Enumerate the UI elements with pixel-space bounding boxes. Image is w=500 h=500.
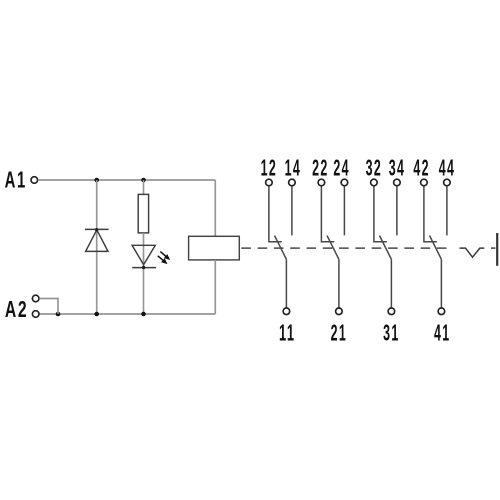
mechanical link dashed line	[239, 247, 447, 249]
contact 1 labels 12 14	[261, 155, 302, 181]
terminal 12	[266, 179, 273, 186]
svg-text:22: 22	[312, 155, 329, 181]
svg-text:A2: A2	[5, 296, 29, 322]
contact 4 common lead	[440, 259, 442, 307]
terminal 44	[444, 179, 451, 186]
svg-text:32: 32	[366, 155, 383, 181]
junction bottom LED branch	[141, 312, 146, 317]
contact 4 labels 42 44	[413, 155, 455, 181]
terminal A1	[31, 177, 38, 184]
mechanical stop bar	[496, 233, 498, 266]
LED arrow 2	[158, 256, 168, 264]
terminal 31	[388, 308, 395, 315]
wire top rail to coil	[214, 180, 216, 236]
wire A2 bridge	[39, 299, 58, 315]
wire LED branch lower	[143, 233, 145, 314]
mechanical link dash to stop	[491, 247, 496, 249]
terminal 41	[438, 308, 445, 315]
diode (suppression)	[85, 229, 109, 251]
junction bottom diode branch	[94, 312, 99, 317]
junction top LED branch	[141, 178, 146, 183]
svg-text:11: 11	[279, 319, 296, 345]
actuator notch	[460, 248, 485, 257]
junction top diode branch	[94, 178, 99, 183]
terminal 34	[394, 179, 401, 186]
resistor	[138, 194, 148, 233]
svg-text:A1: A1	[5, 167, 27, 193]
contact 1 NO lead	[291, 186, 293, 235]
terminal 22	[318, 179, 325, 186]
svg-text:42: 42	[413, 155, 430, 181]
contact 1 blade	[275, 236, 287, 260]
LED	[132, 245, 156, 267]
wire coil bottom	[214, 260, 216, 314]
svg-text:44: 44	[439, 155, 456, 181]
contact 2 NC lead and seat	[321, 186, 334, 242]
wire LED branch upper	[143, 180, 145, 196]
junction bottom A2 link	[56, 312, 61, 317]
terminal 21	[336, 308, 343, 315]
svg-text:24: 24	[333, 155, 350, 181]
terminal A2 lower	[32, 311, 39, 318]
svg-text:31: 31	[383, 319, 400, 345]
contact 4 NO lead	[446, 186, 448, 235]
svg-text:21: 21	[331, 319, 348, 345]
svg-text:41: 41	[434, 319, 451, 345]
wire A2 bottom rail	[36, 313, 215, 315]
terminal 32	[371, 179, 378, 186]
junction diode apex	[95, 228, 98, 231]
terminal A2 upper	[32, 295, 39, 302]
LED arrow 1	[160, 252, 170, 260]
terminal 24	[341, 179, 348, 186]
contact 4 NC lead and seat	[424, 186, 437, 242]
contact 3 common lead	[390, 259, 392, 307]
wire A1 top rail	[38, 179, 215, 181]
terminal 42	[421, 179, 428, 186]
contact 1 common lead	[285, 259, 287, 307]
wire diode branch	[96, 180, 98, 314]
junction LED cathode	[142, 266, 146, 270]
terminal 11	[283, 308, 290, 315]
contact 3 blade	[380, 236, 392, 260]
contact 4 blade	[430, 236, 442, 260]
svg-text:34: 34	[389, 155, 406, 181]
contact 2 blade	[327, 236, 339, 260]
contact 1 NC lead and seat	[269, 186, 282, 242]
svg-text:14: 14	[285, 155, 302, 181]
relay coil K1	[189, 236, 240, 260]
svg-text:12: 12	[261, 155, 278, 181]
contact 3 labels 32 34	[366, 155, 406, 181]
terminal 14	[289, 179, 296, 186]
contact 3 NO lead	[396, 186, 398, 235]
contact 2 labels 22 24	[312, 155, 350, 181]
contact 2 common lead	[338, 259, 340, 307]
contact 3 NC lead and seat	[374, 186, 387, 242]
contact 2 NO lead	[343, 186, 345, 235]
